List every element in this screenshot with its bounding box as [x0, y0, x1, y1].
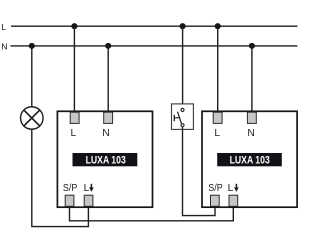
junction on N rail for left device — [105, 43, 111, 49]
right device nameplate LUXA 103 — [217, 153, 282, 167]
svg-text:L: L — [214, 128, 220, 139]
junction on L rail for push-button — [180, 23, 186, 29]
junction on N rail for right device — [249, 43, 255, 49]
left device terminal S/P — [65, 195, 74, 206]
N supply rail wire — [10, 45, 297, 47]
wire N rail to left device terminal N — [107, 46, 109, 113]
svg-text:S/P: S/P — [63, 183, 78, 194]
junction on L rail for right device — [215, 23, 221, 29]
left device terminal N — [104, 112, 113, 123]
right device terminal S/P — [211, 195, 220, 206]
right device terminal L-down — [229, 195, 238, 206]
wire L rail to right device terminal L — [217, 26, 219, 113]
right device U2 LUXA 103 box — [202, 111, 297, 207]
junction on N rail for lamp — [29, 43, 35, 49]
wire lamp bottom to left device terminal L-down — [32, 129, 89, 226]
wire L rail to push-button top — [182, 26, 184, 108]
svg-text:LUXA 103: LUXA 103 — [230, 155, 270, 167]
L supply rail wire — [11, 25, 297, 27]
svg-text:L: L — [84, 183, 90, 194]
right device terminal L — [213, 112, 222, 123]
left device terminal L-down — [84, 195, 93, 206]
wire left device terminal S/P to right device terminal L-down — [70, 205, 234, 221]
left device nameplate LUXA 103 — [73, 153, 138, 167]
right device pin label L-down — [228, 183, 239, 194]
left device pin label L-down — [84, 183, 94, 194]
left device terminal L — [70, 112, 79, 123]
svg-text:L: L — [1, 22, 6, 32]
wire L rail to left device terminal L — [73, 26, 75, 113]
svg-text:N: N — [1, 42, 7, 52]
push-button S1 — [172, 104, 194, 129]
lamp E1 — [21, 107, 44, 130]
svg-text:L: L — [228, 183, 234, 194]
wire push-button bottom to right device terminal S/P — [183, 127, 216, 216]
wire N rail to lamp top — [31, 46, 33, 107]
svg-text:N: N — [247, 128, 254, 139]
right device terminal N — [247, 112, 256, 123]
left device U1 LUXA 103 box — [57, 111, 152, 207]
svg-text:N: N — [102, 128, 109, 139]
svg-text:S/P: S/P — [208, 183, 223, 194]
svg-text:L: L — [70, 128, 76, 139]
wire N rail to right device terminal N — [251, 46, 253, 113]
svg-text:LUXA 103: LUXA 103 — [86, 155, 126, 167]
junction on L rail for left device — [71, 23, 77, 29]
